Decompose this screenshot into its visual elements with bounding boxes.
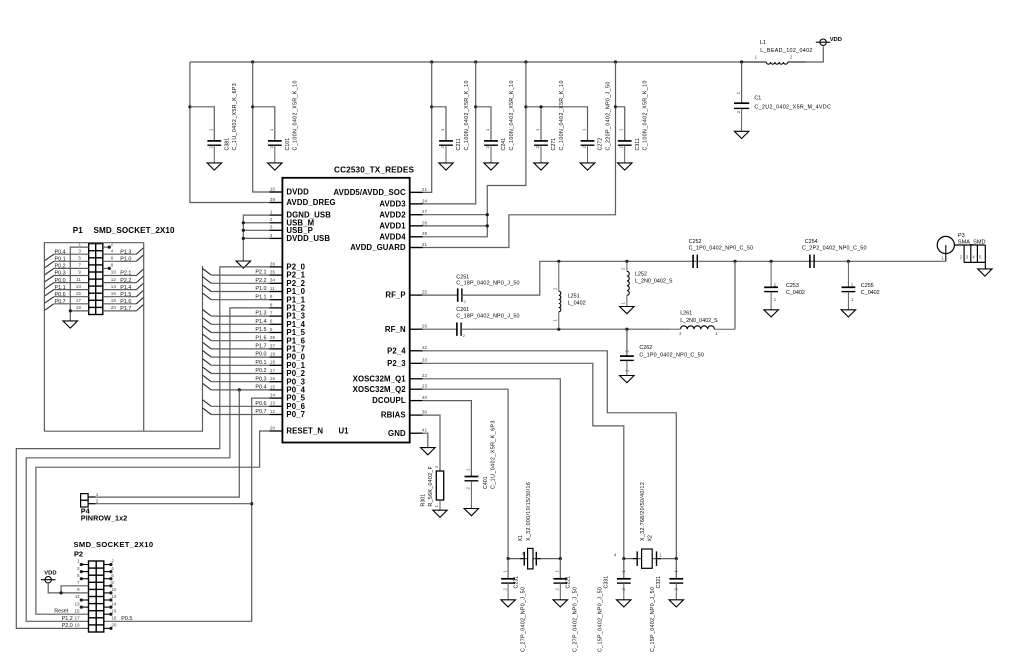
- svg-text:C252: C252: [689, 239, 702, 245]
- svg-text:VDD: VDD: [830, 37, 842, 43]
- svg-text:Reset: Reset: [54, 609, 69, 615]
- svg-text:P1.6: P1.6: [120, 299, 131, 305]
- inductor L251: [553, 261, 586, 329]
- ground: [63, 321, 78, 328]
- svg-text:C_2P2_0402_NP0_C_50: C_2P2_0402_NP0_C_50: [802, 246, 867, 252]
- svg-text:13: 13: [76, 284, 82, 289]
- ground: [617, 600, 632, 607]
- svg-text:6: 6: [111, 256, 114, 261]
- svg-text:16: 16: [270, 376, 276, 381]
- wire DVDD riser (pin10): [251, 62, 282, 192]
- svg-text:C_0402: C_0402: [786, 290, 805, 296]
- svg-text:C401: C401: [483, 476, 489, 489]
- svg-text:C_27P_0402_NP0_J_50: C_27P_0402_NP0_J_50: [573, 587, 579, 652]
- svg-text:20: 20: [270, 425, 276, 430]
- svg-text:P0.0: P0.0: [55, 278, 66, 284]
- wire C211 branch: [432, 107, 446, 141]
- ground: [207, 163, 222, 170]
- capacitor C331: [598, 559, 631, 652]
- svg-text:32: 32: [422, 345, 428, 350]
- svg-text:C_15P_0402_NP0_J_50: C_15P_0402_NP0_J_50: [598, 587, 604, 652]
- svg-text:8: 8: [111, 263, 114, 268]
- svg-text:20: 20: [111, 623, 117, 628]
- wire XOSC32M_Q2 to X1: [423, 389, 508, 558]
- node RF line junctions: [557, 260, 850, 263]
- svg-text:2: 2: [96, 499, 99, 504]
- wire VDD top bus: [190, 61, 742, 63]
- connector P2 SMD_SOCKET_2X10: [74, 540, 154, 632]
- wire P0.5 net (pin14 to P2 pin18): [104, 398, 270, 621]
- wire AVDD_DREG riser (pin39): [188, 62, 282, 203]
- svg-text:P0.5: P0.5: [121, 616, 132, 622]
- svg-text:AVDD4: AVDD4: [379, 232, 406, 241]
- ground: [669, 600, 684, 607]
- svg-text:10: 10: [270, 186, 276, 191]
- svg-text:P0.2: P0.2: [55, 264, 66, 270]
- svg-text:15: 15: [270, 384, 276, 389]
- svg-text:20: 20: [111, 305, 117, 310]
- svg-text:R301: R301: [421, 494, 427, 507]
- connector P1 SMD_SOCKET_2X10: [73, 226, 175, 315]
- svg-text:11: 11: [270, 286, 275, 291]
- svg-text:17: 17: [74, 616, 80, 621]
- svg-text:31: 31: [422, 242, 428, 247]
- wire XOSC32M_Q1 to X1: [423, 379, 561, 559]
- svg-text:P0.2: P0.2: [255, 368, 266, 374]
- connector P3 SMA_SMD: [937, 233, 985, 269]
- svg-text:GND: GND: [388, 429, 406, 438]
- ground: [620, 376, 635, 383]
- wire RF_N line: [423, 328, 457, 330]
- svg-text:1: 1: [96, 492, 99, 497]
- svg-text:P1.4: P1.4: [255, 319, 266, 325]
- crystal X2: [614, 482, 678, 568]
- wire P1 pin1 pin19 to ground: [69, 247, 89, 321]
- svg-text:34: 34: [270, 278, 276, 283]
- svg-text:C_1U_0402_X5R_K_6P3: C_1U_0402_X5R_K_6P3: [232, 83, 238, 151]
- ground: [553, 600, 568, 607]
- svg-text:P1.1: P1.1: [55, 285, 66, 291]
- svg-text:X_32.768/20/50/40/12: X_32.768/20/50/40/12: [640, 482, 646, 541]
- svg-text:12: 12: [270, 409, 276, 414]
- capacitor C241: [484, 80, 515, 163]
- IC U1 CC2530_TX_REDES: [269, 166, 427, 443]
- svg-text:15: 15: [74, 608, 80, 613]
- svg-text:5: 5: [270, 327, 273, 332]
- ground: [433, 510, 447, 517]
- svg-text:P1.1: P1.1: [255, 294, 266, 300]
- svg-text:5: 5: [78, 256, 81, 261]
- svg-text:9: 9: [270, 294, 273, 299]
- svg-text:X2: X2: [647, 535, 653, 542]
- svg-text:L_2N0_0402_S: L_2N0_0402_S: [680, 318, 718, 324]
- svg-text:AVDD2: AVDD2: [379, 210, 406, 219]
- svg-text:P2_3: P2_3: [387, 359, 406, 368]
- svg-text:L261: L261: [680, 311, 692, 317]
- svg-text:7: 7: [77, 580, 80, 585]
- ground: [501, 600, 516, 607]
- svg-text:XOSC32M_Q1: XOSC32M_Q1: [353, 374, 407, 383]
- svg-text:P0.1: P0.1: [55, 257, 66, 263]
- svg-text:P0.0: P0.0: [255, 352, 266, 358]
- wire GND pin41: [423, 433, 428, 447]
- svg-text:X1: X1: [518, 535, 524, 542]
- svg-text:C_15P_0402_NP0_J_50: C_15P_0402_NP0_J_50: [650, 587, 656, 652]
- svg-text:P0.7: P0.7: [55, 299, 66, 305]
- svg-text:P2: P2: [74, 550, 83, 559]
- svg-text:13: 13: [74, 601, 80, 606]
- ground: [580, 163, 595, 170]
- ground: [464, 509, 479, 516]
- svg-text:28: 28: [422, 220, 428, 225]
- wire AVDD5 riser (pin21): [410, 62, 434, 192]
- svg-text:36: 36: [270, 261, 276, 266]
- svg-text:18: 18: [111, 298, 117, 303]
- svg-text:11: 11: [76, 277, 81, 282]
- svg-text:P1.3: P1.3: [255, 311, 266, 317]
- svg-text:P2.2: P2.2: [120, 278, 131, 284]
- power VDD: [41, 571, 57, 583]
- wire AVDD3 riser (pin24): [410, 62, 478, 204]
- capacitor C211: [439, 80, 470, 163]
- capacitor C262: [620, 329, 704, 375]
- svg-text:L1: L1: [760, 40, 766, 46]
- svg-text:26: 26: [422, 324, 428, 329]
- wire DCOUPL to C401: [423, 401, 472, 477]
- svg-text:14: 14: [270, 393, 276, 398]
- svg-text:6: 6: [111, 573, 114, 578]
- capacitor C1: [734, 91, 831, 131]
- capacitor C252: [689, 239, 754, 268]
- ground: [534, 163, 548, 170]
- svg-text:L252: L252: [635, 272, 647, 278]
- svg-text:19: 19: [270, 352, 276, 357]
- svg-text:AVDD1: AVDD1: [379, 222, 406, 231]
- svg-text:21: 21: [422, 187, 428, 192]
- wire P1 bus frame: [44, 243, 202, 432]
- svg-text:P1.0: P1.0: [255, 286, 266, 292]
- svg-text:P0.3: P0.3: [255, 376, 266, 382]
- svg-text:C1: C1: [754, 96, 761, 102]
- svg-text:11: 11: [75, 594, 80, 599]
- svg-text:P1.4: P1.4: [120, 285, 131, 291]
- node net labels at P2: [54, 609, 132, 629]
- svg-text:P0.7: P0.7: [255, 409, 266, 415]
- svg-text:2: 2: [111, 559, 114, 564]
- svg-text:P1.7: P1.7: [120, 306, 131, 312]
- capacitor C101: [268, 80, 299, 163]
- svg-text:AVDD_GUARD: AVDD_GUARD: [350, 243, 406, 252]
- svg-text:P2_4: P2_4: [387, 346, 406, 355]
- svg-text:DVDD_USB: DVDD_USB: [286, 234, 330, 243]
- svg-text:C241: C241: [501, 138, 507, 151]
- svg-text:C255: C255: [861, 283, 874, 289]
- svg-text:P0.3: P0.3: [55, 271, 66, 277]
- svg-text:C_100N_0402_X5R_K_10: C_100N_0402_X5R_K_10: [559, 80, 565, 150]
- ground: [764, 310, 779, 317]
- svg-text:C_18P_0402_NP0_J_50: C_18P_0402_NP0_J_50: [456, 313, 519, 319]
- wire L261 riser: [734, 261, 736, 329]
- svg-text:R_56K_0402_F: R_56K_0402_F: [428, 465, 434, 506]
- svg-text:P1.5: P1.5: [120, 292, 131, 298]
- wire USB pins to ground: [242, 215, 270, 261]
- svg-text:RBIAS: RBIAS: [381, 411, 406, 420]
- svg-text:2: 2: [111, 241, 114, 246]
- svg-text:C_0402: C_0402: [861, 290, 880, 296]
- svg-text:7: 7: [270, 311, 273, 316]
- svg-text:18: 18: [111, 616, 117, 621]
- resistor R301: [421, 465, 444, 510]
- svg-text:12: 12: [111, 277, 117, 282]
- svg-text:P1.2: P1.2: [62, 616, 73, 622]
- svg-text:16: 16: [111, 608, 117, 613]
- svg-text:3: 3: [78, 248, 81, 253]
- ground: [620, 307, 635, 314]
- wire P0.4 branch to P4 pin1: [96, 390, 240, 497]
- svg-text:P2.1: P2.1: [255, 270, 266, 276]
- wire C241 branch: [476, 107, 491, 141]
- capacitor C401: [465, 420, 497, 508]
- svg-text:P3: P3: [958, 233, 965, 239]
- inductor L1: [742, 40, 813, 64]
- svg-text:3: 3: [270, 225, 273, 230]
- svg-text:3: 3: [77, 566, 80, 571]
- svg-text:10: 10: [111, 270, 117, 275]
- svg-text:9: 9: [78, 270, 81, 275]
- svg-text:P2.2: P2.2: [255, 278, 266, 284]
- ground: [618, 163, 633, 170]
- svg-text:41: 41: [422, 428, 428, 433]
- wire C1 lead: [741, 62, 743, 103]
- svg-text:C_27P_0402_NP0_J_50: C_27P_0402_NP0_J_50: [521, 587, 527, 652]
- svg-text:L_BEAD_102_0402: L_BEAD_102_0402: [760, 48, 812, 54]
- svg-text:7: 7: [78, 263, 81, 268]
- svg-text:P1: P1: [73, 226, 83, 235]
- svg-text:P1.0: P1.0: [120, 257, 131, 263]
- capacitor C231: [501, 559, 526, 652]
- wire P2.0 net (pin36 to P2 pin19): [16, 267, 269, 629]
- svg-text:C381: C381: [224, 138, 230, 151]
- svg-text:24: 24: [422, 198, 428, 203]
- svg-text:C331: C331: [604, 576, 610, 589]
- svg-text:C253: C253: [786, 283, 799, 289]
- svg-text:P1.5: P1.5: [255, 327, 266, 333]
- svg-text:C321: C321: [656, 576, 662, 589]
- svg-text:8: 8: [111, 580, 114, 585]
- capacitor C261: [456, 307, 519, 338]
- svg-text:22: 22: [422, 373, 428, 378]
- svg-text:VDD: VDD: [44, 571, 56, 577]
- wire C101 branch: [253, 107, 275, 141]
- svg-text:AVDD5/AVDD_SOC: AVDD5/AVDD_SOC: [334, 188, 406, 197]
- svg-text:P0.6: P0.6: [55, 292, 66, 298]
- svg-text:4: 4: [111, 248, 114, 253]
- svg-text:P1.7: P1.7: [255, 344, 266, 350]
- capacitor C255: [842, 261, 880, 310]
- svg-text:29: 29: [422, 231, 428, 236]
- svg-text:C_220P_0402_NP0_J_50: C_220P_0402_NP0_J_50: [605, 81, 611, 150]
- ground: [236, 261, 251, 268]
- inductor L261: [671, 311, 735, 336]
- svg-text:P2.0: P2.0: [62, 623, 73, 629]
- svg-text:6: 6: [270, 319, 273, 324]
- svg-text:C_100N_0402_X5R_K_10: C_100N_0402_X5R_K_10: [509, 80, 515, 150]
- svg-text:1: 1: [77, 559, 80, 564]
- capacitor C251: [456, 274, 519, 304]
- svg-text:2: 2: [270, 217, 273, 222]
- svg-text:P0.4: P0.4: [55, 249, 66, 255]
- capacitor C271: [534, 80, 565, 163]
- svg-text:C261: C261: [456, 307, 469, 313]
- svg-text:5: 5: [77, 573, 80, 578]
- svg-text:C_1P0_0402_NP0_C_50: C_1P0_0402_NP0_C_50: [639, 352, 704, 358]
- svg-text:PINROW_1x2: PINROW_1x2: [81, 514, 128, 523]
- svg-text:C262: C262: [639, 345, 652, 351]
- svg-text:C101: C101: [285, 138, 291, 151]
- wire P1 pin wires with bus hatches: [44, 248, 143, 313]
- wire P1.2 net (pin8 to P2 pin17): [26, 308, 269, 621]
- svg-text:XOSC32M_Q2: XOSC32M_Q2: [353, 385, 407, 394]
- svg-text:L_2N0_0402_S: L_2N0_0402_S: [635, 279, 673, 285]
- svg-text:19: 19: [76, 305, 82, 310]
- svg-text:SMD_SOCKET_2X10: SMD_SOCKET_2X10: [74, 540, 154, 549]
- svg-text:12: 12: [111, 594, 117, 599]
- svg-text:27: 27: [422, 209, 428, 214]
- wire L1 to VDD: [806, 46, 823, 62]
- svg-text:C254: C254: [805, 239, 818, 245]
- power VDD: [816, 37, 842, 46]
- wire C271 C272 branch: [526, 105, 588, 141]
- svg-text:L251: L251: [568, 294, 580, 300]
- svg-text:4: 4: [111, 566, 114, 571]
- svg-text:P0.1: P0.1: [255, 360, 266, 366]
- svg-text:AVDD3: AVDD3: [379, 200, 406, 209]
- svg-text:RESET_N: RESET_N: [286, 427, 323, 436]
- svg-text:39: 39: [270, 197, 276, 202]
- svg-text:SMD_SOCKET_2X10: SMD_SOCKET_2X10: [94, 226, 176, 235]
- svg-text:14: 14: [111, 284, 117, 289]
- capacitor C381: [207, 83, 238, 163]
- wire VDD to P2 pins 7 and 9: [48, 584, 88, 595]
- svg-text:1: 1: [270, 210, 273, 215]
- svg-text:4: 4: [270, 233, 273, 238]
- wire C311 branch: [616, 107, 625, 141]
- svg-text:23: 23: [422, 384, 428, 389]
- wire RBIAS to R301: [423, 415, 440, 471]
- inductor L252: [621, 261, 673, 306]
- svg-text:13: 13: [270, 401, 276, 406]
- capacitor C321: [650, 559, 683, 652]
- svg-text:C272: C272: [598, 138, 604, 151]
- crystal X1: [507, 482, 562, 569]
- wire AVDD2/AVDD1/AVDD4 riser (pins 27,28,29): [410, 62, 528, 237]
- svg-text:19: 19: [74, 623, 80, 628]
- svg-text:C251: C251: [456, 274, 469, 280]
- svg-text:P2.1: P2.1: [120, 271, 131, 277]
- svg-text:C_18P_0402_NP0_J_50: C_18P_0402_NP0_J_50: [456, 281, 519, 287]
- svg-text:18: 18: [270, 360, 276, 365]
- svg-text:C271: C271: [551, 138, 557, 151]
- svg-text:X_32.000/10/15/30/16: X_32.000/10/15/30/16: [526, 482, 532, 541]
- svg-text:AVDD_DREG: AVDD_DREG: [286, 198, 335, 207]
- capacitor C253: [764, 261, 805, 310]
- svg-text:L_0402: L_0402: [568, 301, 586, 307]
- svg-text:38: 38: [270, 335, 276, 340]
- svg-text:C311: C311: [635, 138, 641, 150]
- connector P4 PINROW_1x2: [81, 492, 128, 523]
- svg-text:C231: C231: [513, 576, 519, 589]
- ground: [978, 269, 993, 276]
- wire AVDD_GUARD riser (pin31): [410, 62, 617, 248]
- svg-text:P1.3: P1.3: [120, 249, 131, 255]
- svg-text:C221: C221: [566, 576, 572, 589]
- wire P2_4 to X2: [423, 351, 677, 559]
- svg-text:CC2530_TX_REDES: CC2530_TX_REDES: [334, 166, 414, 175]
- svg-text:RF_N: RF_N: [385, 325, 406, 334]
- svg-text:9: 9: [77, 587, 80, 592]
- capacitor C311: [618, 80, 649, 163]
- svg-text:C_2U2_0402_X5R_M_4VDC: C_2U2_0402_X5R_M_4VDC: [754, 105, 831, 111]
- svg-text:C_1P0_0402_NP0_C_50: C_1P0_0402_NP0_C_50: [689, 246, 754, 252]
- svg-text:40: 40: [422, 395, 428, 400]
- svg-text:DVDD: DVDD: [286, 188, 309, 197]
- wire C381 branch: [190, 107, 214, 141]
- svg-text:DCOUPL: DCOUPL: [372, 396, 406, 405]
- svg-text:25: 25: [422, 290, 428, 295]
- wire Reset net (pin20 to P2 pin15): [36, 431, 270, 614]
- capacitor C221: [553, 559, 578, 652]
- svg-text:RF_P: RF_P: [385, 291, 405, 300]
- wire C251 to RF line: [462, 261, 946, 295]
- svg-text:P0.4: P0.4: [255, 385, 266, 391]
- capacitor C272: [581, 81, 612, 163]
- ground: [268, 163, 283, 170]
- ground: [484, 163, 498, 170]
- svg-text:14: 14: [111, 601, 117, 606]
- svg-text:P0_7: P0_7: [286, 410, 305, 419]
- svg-text:33: 33: [422, 358, 428, 363]
- wire RF_P to C251: [423, 294, 458, 296]
- svg-text:U1: U1: [339, 427, 350, 436]
- svg-text:C_100N_0402_X5R_K_10: C_100N_0402_X5R_K_10: [643, 80, 649, 150]
- capacitor C254: [802, 239, 867, 268]
- ground: [421, 448, 436, 455]
- svg-text:15: 15: [76, 291, 82, 296]
- ground: [841, 310, 856, 317]
- svg-text:C_100N_0402_X5R_K_10: C_100N_0402_X5R_K_10: [293, 80, 299, 150]
- svg-text:P1.6: P1.6: [255, 335, 266, 341]
- svg-text:1: 1: [78, 241, 81, 246]
- wire P2_3 to X2: [423, 363, 624, 558]
- svg-text:35: 35: [270, 270, 276, 275]
- svg-text:8: 8: [270, 302, 273, 307]
- svg-text:C_100N_0402_X5R_K_10: C_100N_0402_X5R_K_10: [464, 80, 470, 150]
- svg-text:30: 30: [422, 410, 428, 415]
- svg-text:16: 16: [111, 291, 117, 296]
- wire C261 to L261: [461, 328, 671, 331]
- svg-text:10: 10: [111, 587, 117, 592]
- wire P4 pin2 to P0.5 net: [96, 503, 252, 505]
- svg-text:C_1U_0402_X5R_K_6P3: C_1U_0402_X5R_K_6P3: [490, 420, 496, 489]
- node VDD bus junctions: [251, 60, 743, 63]
- svg-text:P0.6: P0.6: [255, 401, 266, 407]
- ground: [734, 131, 749, 138]
- ground: [439, 163, 453, 170]
- node P0.4 branch junction: [238, 388, 241, 391]
- svg-text:37: 37: [270, 343, 276, 348]
- svg-text:17: 17: [76, 298, 82, 303]
- wire P1 pin2 pin8 stubs: [103, 246, 111, 271]
